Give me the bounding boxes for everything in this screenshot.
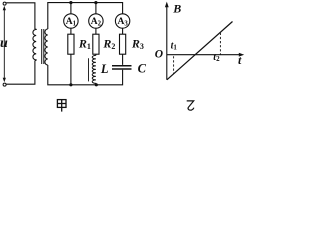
svg-text:A1: A1: [66, 17, 77, 27]
svg-text:R1: R1: [78, 37, 91, 52]
svg-text:O: O: [155, 49, 163, 61]
svg-text:C: C: [138, 62, 147, 76]
svg-text:B: B: [172, 1, 181, 15]
svg-text:u: u: [0, 36, 8, 51]
svg-text:R2: R2: [102, 37, 115, 52]
svg-text:t2: t2: [213, 52, 220, 63]
svg-text:t1: t1: [171, 40, 178, 51]
svg-text:A2: A2: [91, 17, 102, 27]
svg-text:R3: R3: [131, 37, 144, 52]
svg-text:L: L: [100, 62, 109, 76]
svg-text:A3: A3: [117, 17, 128, 27]
